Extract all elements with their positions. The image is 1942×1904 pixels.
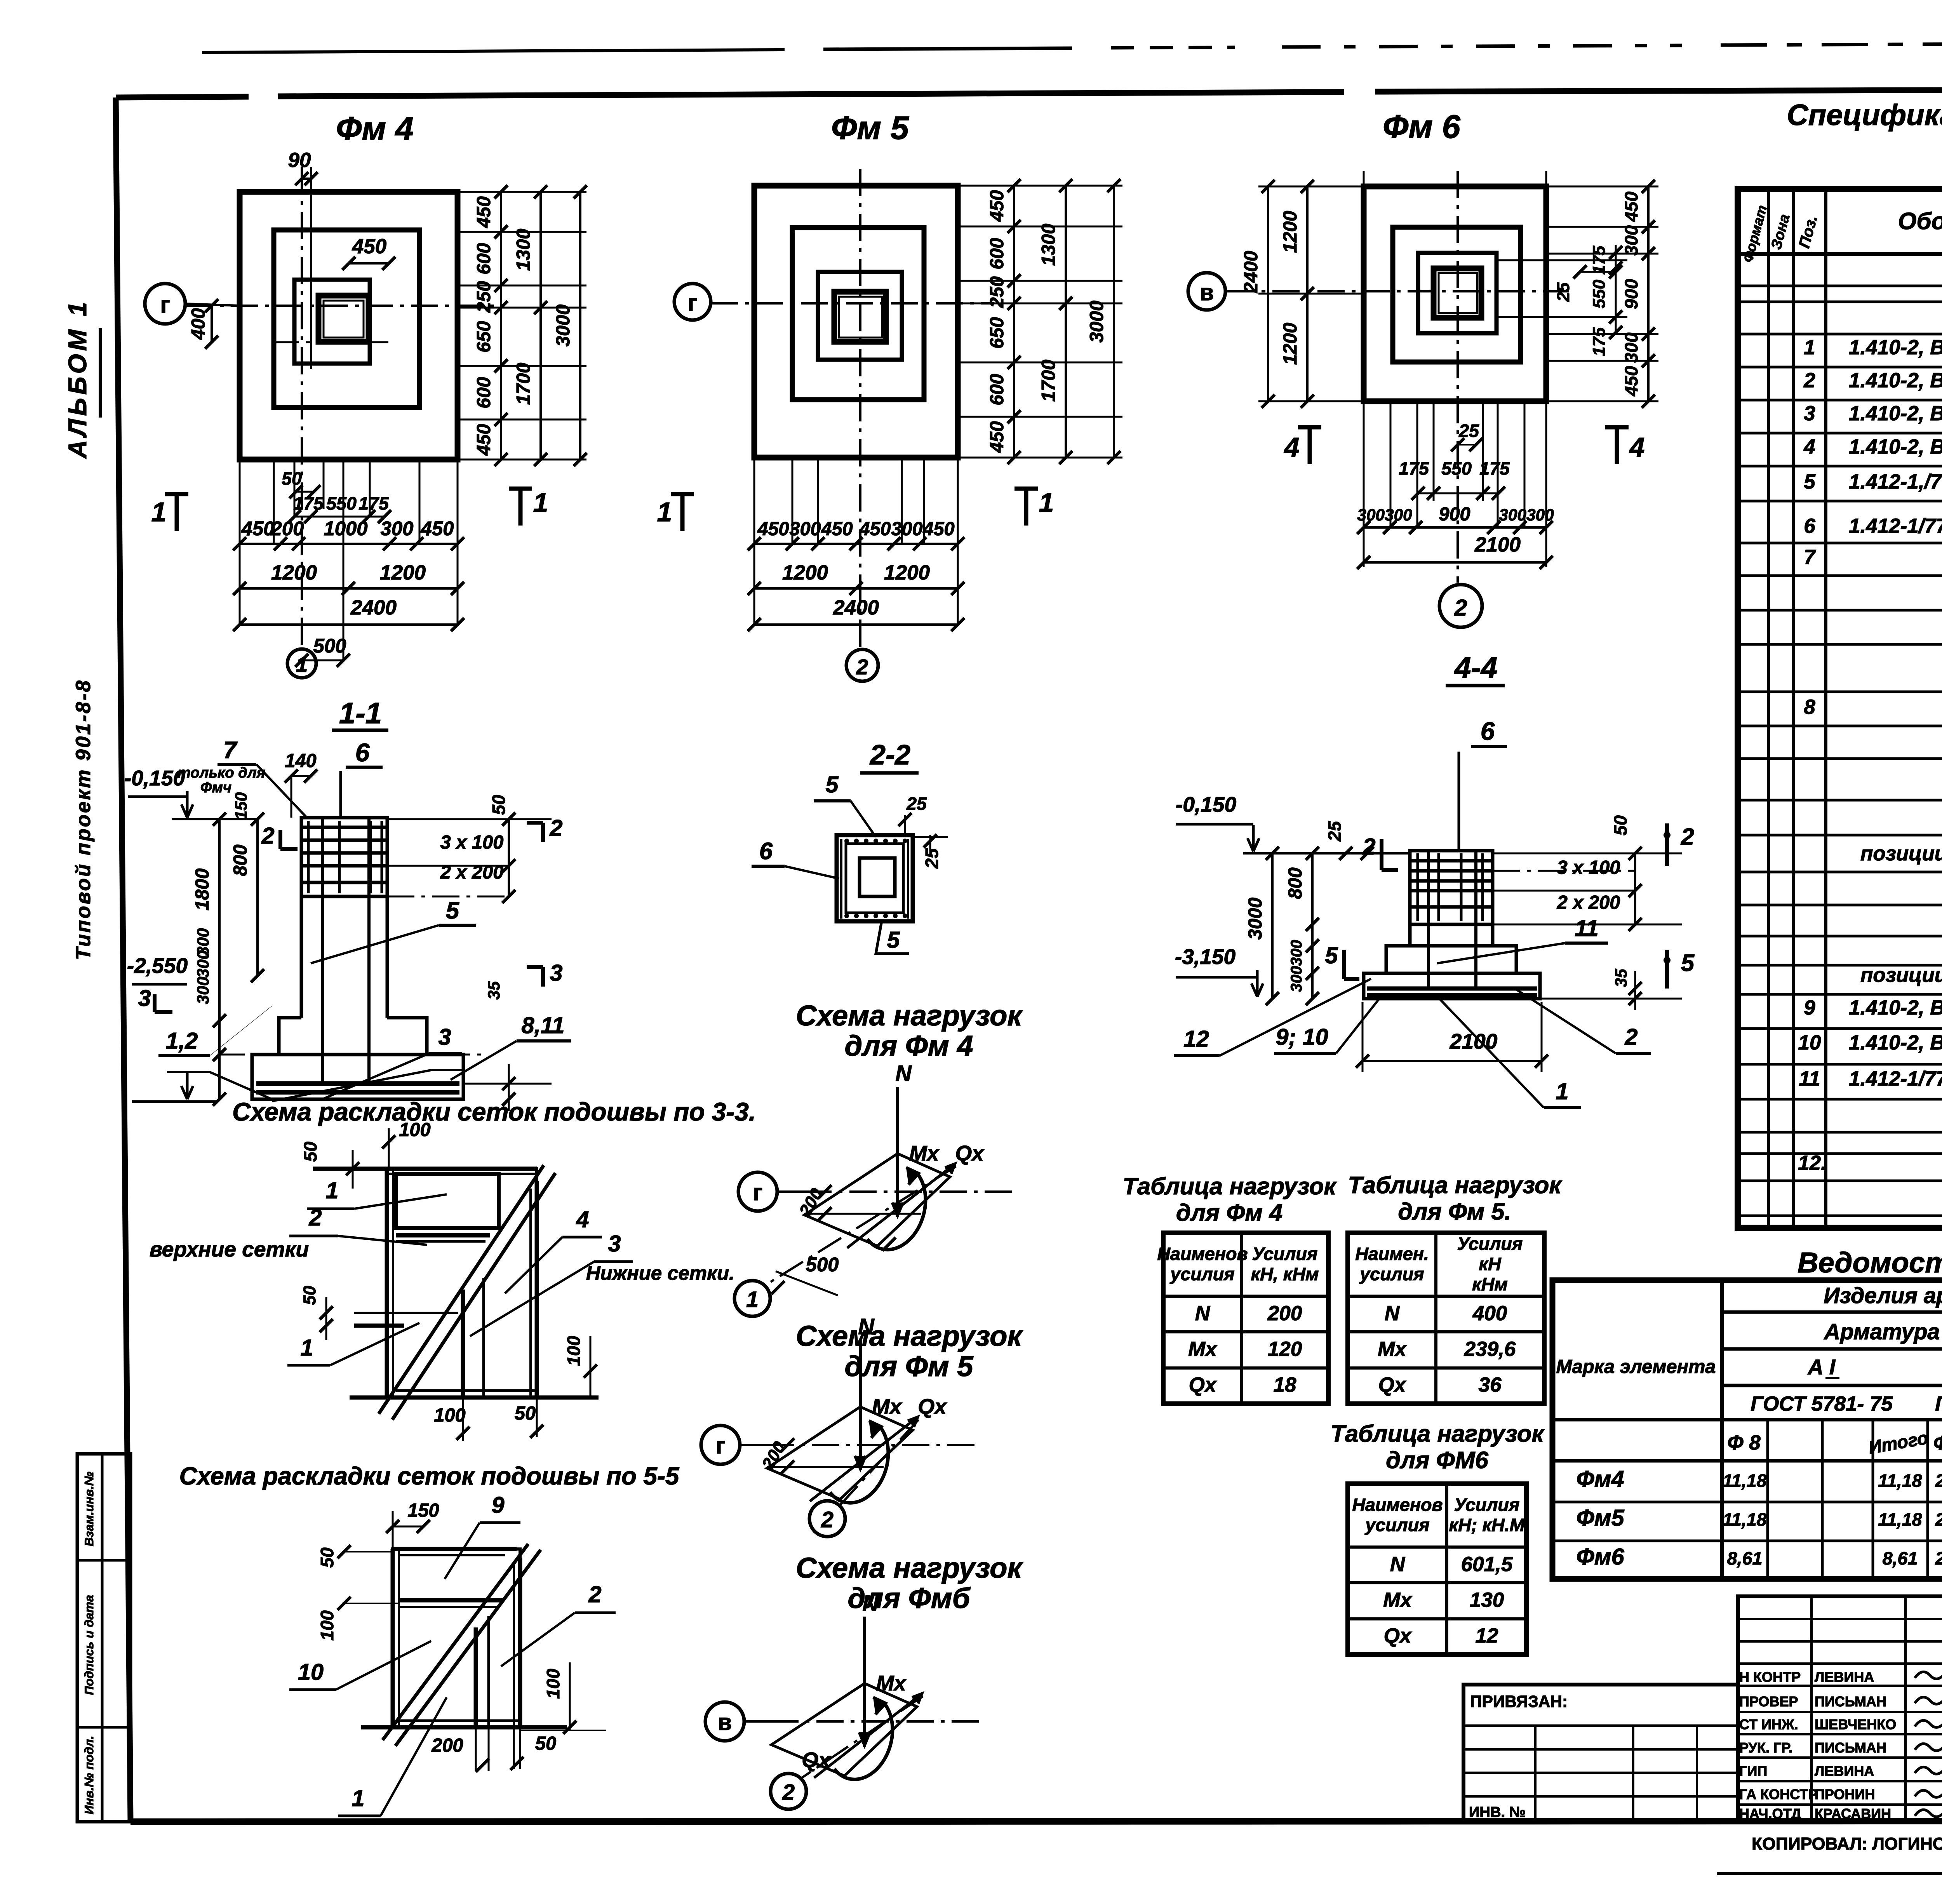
svg-text:1: 1 bbox=[1039, 487, 1054, 518]
svg-text:ЛЕВИНА: ЛЕВИНА bbox=[1815, 1763, 1874, 1779]
svg-text:Ф10: Ф10 bbox=[1933, 1432, 1942, 1454]
section 1-1 column rebar verticals bbox=[321, 818, 324, 1084]
svg-text:250: 250 bbox=[987, 276, 1008, 308]
mesh 3-3 mid horizontal lines bbox=[354, 1312, 458, 1314]
load table box bbox=[1348, 1484, 1526, 1655]
svg-text:4: 4 bbox=[1284, 432, 1300, 462]
load table header separator bbox=[1348, 1295, 1544, 1298]
svg-text:1: 1 bbox=[746, 1287, 759, 1312]
svg-text:3000: 3000 bbox=[553, 305, 574, 346]
section 4-4 left dim 3000 bbox=[1271, 853, 1274, 999]
svg-text:2: 2 bbox=[821, 1507, 834, 1532]
load scheme axis circle г bbox=[738, 1172, 777, 1211]
svg-text:1.410-2, Вып.1: 1.410-2, Вып.1 bbox=[1849, 402, 1942, 425]
load scheme N arrowhead bbox=[892, 1203, 903, 1216]
svg-text:175: 175 bbox=[358, 493, 389, 513]
svg-text:НАЧ.ОТД: НАЧ.ОТД bbox=[1739, 1806, 1801, 1822]
svg-text:4-4: 4-4 bbox=[1454, 651, 1497, 684]
mesh 5-5 left vertical double line bbox=[391, 1549, 395, 1727]
svg-text:г: г bbox=[753, 1179, 763, 1205]
svg-text:Усилия: Усилия bbox=[1252, 1244, 1318, 1264]
svg-text:2: 2 bbox=[1454, 595, 1467, 621]
svg-text:175: 175 bbox=[1399, 458, 1429, 479]
section 2-2 inner square (column core) bbox=[860, 858, 895, 896]
svg-text:2: 2 bbox=[308, 1204, 322, 1230]
svg-text:11: 11 bbox=[1799, 1067, 1820, 1090]
Фм6 right extension lines bbox=[1546, 186, 1658, 188]
steel table outer border bbox=[1552, 1280, 1942, 1579]
svg-text:1200: 1200 bbox=[271, 561, 317, 584]
spec table row lines bbox=[1738, 285, 1942, 287]
mesh 3-3 right vertical double line bbox=[535, 1181, 539, 1398]
svg-text:кН; кН.М: кН; кН.М bbox=[1449, 1515, 1525, 1535]
Фм6 dimension 2100 bbox=[1364, 561, 1546, 564]
svg-text:500: 500 bbox=[806, 1253, 839, 1276]
svg-text:ПРОВЕР: ПРОВЕР bbox=[1739, 1693, 1798, 1709]
svg-text:450: 450 bbox=[987, 421, 1008, 453]
Фм6 left dimension 2400 bbox=[1267, 186, 1269, 401]
left stamp divider 2 bbox=[77, 1726, 131, 1729]
svg-text:ГИП: ГИП bbox=[1739, 1763, 1767, 1779]
section 1-1 left dim 800 150 bbox=[256, 819, 259, 976]
svg-text:Qх: Qх bbox=[955, 1141, 985, 1165]
frame left border bbox=[116, 97, 131, 1822]
svg-text:50: 50 bbox=[300, 1142, 320, 1162]
Фм6 top ticks bbox=[1363, 171, 1365, 186]
svg-text:N: N bbox=[1195, 1302, 1211, 1325]
plan Фм4 offset line 90 bbox=[310, 167, 312, 369]
svg-text:600: 600 bbox=[473, 377, 494, 408]
plan Фм6 column outline bbox=[1434, 268, 1481, 318]
svg-text:Фмч: Фмч bbox=[200, 779, 231, 796]
svg-text:Спецификация монолитных фунд: Спецификация монолитных фундаментов bbox=[1787, 99, 1942, 132]
svg-text:130: 130 bbox=[1470, 1589, 1504, 1612]
svg-text:Ф 8: Ф 8 bbox=[1727, 1431, 1761, 1454]
svg-text:300: 300 bbox=[1621, 332, 1641, 363]
section 2-2 outer square bbox=[837, 835, 913, 921]
Фм4 right dimension 3000 bbox=[579, 192, 581, 459]
plan Фм5 column outline bbox=[834, 292, 886, 342]
load scheme N axis vertical bbox=[859, 1340, 862, 1470]
section 1-1 top level line bbox=[172, 818, 256, 820]
svg-text:в: в bbox=[1200, 279, 1214, 305]
section 1-1 right extension lines bbox=[387, 818, 552, 820]
svg-text:2: 2 bbox=[1803, 369, 1815, 392]
svg-text:2400: 2400 bbox=[1241, 251, 1262, 293]
svg-text:140: 140 bbox=[285, 750, 316, 771]
svg-text:300: 300 bbox=[381, 517, 414, 540]
svg-text:6: 6 bbox=[759, 838, 773, 865]
mesh 5-5 diagonal double line bbox=[383, 1544, 528, 1740]
svg-text:в: в bbox=[718, 1709, 732, 1735]
Фм6 right dimension 175 550 175 bbox=[1615, 245, 1617, 332]
svg-text:5: 5 bbox=[1681, 950, 1695, 976]
svg-text:N: N bbox=[1390, 1553, 1406, 1576]
svg-text:8,61: 8,61 bbox=[1883, 1548, 1918, 1568]
load table column divider bbox=[1434, 1233, 1437, 1404]
svg-text:1000: 1000 bbox=[324, 517, 367, 540]
svg-text:-0,150: -0,150 bbox=[1176, 792, 1237, 816]
Фм5 right dimension 1300 1700 bbox=[1065, 186, 1067, 458]
mesh 1 (upper mesh) block bbox=[396, 1174, 499, 1228]
svg-text:450: 450 bbox=[1621, 191, 1641, 222]
svg-text:1: 1 bbox=[151, 497, 167, 527]
section 1-1 column mesh block bbox=[301, 818, 387, 896]
svg-text:9: 9 bbox=[1804, 996, 1815, 1019]
svg-text:усилия: усилия bbox=[1359, 1264, 1424, 1284]
svg-text:1.410-2, Вып.1: 1.410-2, Вып.1 bbox=[1849, 336, 1942, 359]
section 2-2 rebar dots top bbox=[844, 839, 849, 843]
left stamp divider 1 bbox=[77, 1559, 131, 1562]
load table column divider bbox=[1445, 1484, 1448, 1655]
svg-text:7: 7 bbox=[1804, 546, 1816, 569]
svg-text:3000: 3000 bbox=[1245, 898, 1266, 940]
svg-text:36: 36 bbox=[1479, 1373, 1502, 1396]
svg-text:100: 100 bbox=[434, 1405, 465, 1426]
svg-text:100: 100 bbox=[399, 1119, 430, 1140]
svg-text:1300: 1300 bbox=[513, 229, 534, 271]
svg-text:120: 120 bbox=[1268, 1338, 1302, 1361]
svg-text:2400: 2400 bbox=[350, 596, 397, 619]
plan Фм5 vertical axis line bbox=[859, 169, 861, 648]
dimension 2400 (Фм5) bbox=[754, 623, 958, 626]
Привязан grid bbox=[1463, 1725, 1738, 1727]
svg-text:для Фм 4: для Фм 4 bbox=[1176, 1199, 1282, 1226]
svg-text:СТ ИНЖ.: СТ ИНЖ. bbox=[1739, 1716, 1798, 1732]
load scheme plate parallelogram bbox=[804, 1154, 950, 1246]
mesh 3-3 bottom double line bbox=[350, 1396, 599, 1400]
svg-text:только для: только для bbox=[177, 764, 265, 781]
svg-text:Таблица нагрузок: Таблица нагрузок bbox=[1122, 1173, 1337, 1200]
svg-text:150: 150 bbox=[407, 1500, 439, 1521]
svg-text:239,6: 239,6 bbox=[1464, 1338, 1516, 1361]
svg-text:Qх: Qх bbox=[1378, 1373, 1407, 1396]
svg-text:1200: 1200 bbox=[380, 561, 426, 584]
svg-text:2: 2 bbox=[588, 1581, 601, 1607]
svg-text:25: 25 bbox=[906, 794, 927, 814]
svg-text:6: 6 bbox=[1481, 717, 1495, 745]
svg-text:Мх: Мх bbox=[1383, 1589, 1413, 1612]
svg-text:1-1: 1-1 bbox=[339, 697, 382, 730]
section 4-4 base slab bbox=[1364, 973, 1540, 999]
svg-text:25: 25 bbox=[1458, 421, 1479, 441]
svg-text:11,18: 11,18 bbox=[1723, 1509, 1766, 1530]
svg-text:550: 550 bbox=[1590, 280, 1609, 309]
svg-text:1.410-2, Вып.1: 1.410-2, Вып.1 bbox=[1849, 996, 1942, 1019]
svg-text:2: 2 bbox=[1362, 834, 1375, 860]
svg-text:450: 450 bbox=[473, 424, 494, 456]
svg-text:Наимен.: Наимен. bbox=[1355, 1244, 1429, 1264]
svg-text:3000: 3000 bbox=[1086, 301, 1107, 343]
load scheme axis circle 2 bbox=[771, 1773, 806, 1809]
svg-text:900: 900 bbox=[1621, 279, 1641, 309]
svg-text:3: 3 bbox=[1804, 402, 1815, 425]
svg-text:для ФМ6: для ФМ6 bbox=[1386, 1447, 1488, 1474]
axis circle 2 (Фм5 bottom) bbox=[846, 649, 878, 681]
svg-text:ПРИВЯЗАН:: ПРИВЯЗАН: bbox=[1470, 1692, 1568, 1711]
svg-text:100: 100 bbox=[564, 1336, 584, 1366]
svg-text:3: 3 bbox=[438, 1024, 451, 1050]
axis circle г (Фм5) bbox=[674, 284, 711, 320]
svg-text:Мх: Мх bbox=[1188, 1338, 1218, 1361]
svg-text:Qх: Qх bbox=[1189, 1373, 1217, 1396]
svg-text:150: 150 bbox=[232, 792, 250, 820]
frame bottom border bbox=[131, 1821, 1942, 1822]
svg-text:5: 5 bbox=[825, 771, 839, 797]
steel table data row lines bbox=[1552, 1501, 1942, 1504]
section 4-4 base mesh lines bbox=[1367, 987, 1537, 991]
mesh 5-5 top double line bbox=[393, 1547, 517, 1551]
svg-text:600: 600 bbox=[987, 374, 1008, 405]
load scheme horizontal axis bbox=[744, 1720, 771, 1723]
svg-text:2 х 200: 2 х 200 bbox=[440, 862, 504, 883]
spec table header row bbox=[1738, 252, 1942, 256]
Фм6 left dimension 1200 1200 bbox=[1306, 186, 1309, 401]
load scheme Qx arrow bbox=[810, 1417, 918, 1501]
svg-text:ПИСЬМАН: ПИСЬМАН bbox=[1815, 1740, 1886, 1756]
svg-text:8,61: 8,61 bbox=[1727, 1548, 1763, 1568]
Фм5 right extension lines bbox=[958, 185, 1122, 187]
svg-text:200: 200 bbox=[271, 517, 304, 540]
svg-text:г: г bbox=[688, 290, 698, 316]
steel table vertical column lines (body) bbox=[1721, 1420, 1723, 1579]
svg-text:1.410-2, Вып.1: 1.410-2, Вып.1 bbox=[1849, 1031, 1942, 1054]
Фм6 dimension 175 550 175 (below) bbox=[1418, 493, 1498, 494]
svg-text:Схема нагрузок: Схема нагрузок bbox=[796, 1320, 1023, 1352]
svg-text:11,18: 11,18 bbox=[1878, 1509, 1922, 1530]
svg-text:18: 18 bbox=[1274, 1373, 1296, 1396]
load scheme plate parallelogram bbox=[767, 1407, 913, 1499]
load scheme axis circle г bbox=[701, 1425, 740, 1464]
load scheme Mx moment arc bbox=[834, 1704, 893, 1779]
sheet outer trim dash-dot line (top) bbox=[202, 50, 785, 52]
svg-text:1800: 1800 bbox=[192, 868, 213, 910]
dimension 175 550 175 (below plan) bbox=[294, 516, 385, 518]
svg-text:1.412-1/77 Вып.3: 1.412-1/77 Вып.3 bbox=[1849, 515, 1942, 538]
dimension 400 (left) bbox=[211, 306, 213, 342]
svg-text:50: 50 bbox=[515, 1403, 536, 1424]
svg-text:450: 450 bbox=[241, 517, 275, 540]
svg-text:Наименов: Наименов bbox=[1157, 1244, 1248, 1264]
svg-text:Схема раскладки сеток подошвы: Схема раскладки сеток подошвы по 5-5 bbox=[179, 1462, 680, 1490]
svg-text:50: 50 bbox=[489, 795, 509, 815]
svg-text:1.412-1,/77, Вып.3: 1.412-1,/77, Вып.3 bbox=[1849, 470, 1942, 493]
Фм4 right dimension 1300 1700 bbox=[539, 192, 542, 459]
svg-text:2100: 2100 bbox=[1474, 533, 1521, 556]
svg-text:300: 300 bbox=[891, 519, 922, 540]
section 4-4 top level line bbox=[1243, 852, 1410, 855]
section 4-4 rebar verticals bbox=[1427, 851, 1430, 990]
svg-text:300: 300 bbox=[1621, 225, 1641, 256]
load scheme inclined axis with circle bbox=[839, 1420, 919, 1506]
svg-text:верхние сетки: верхние сетки bbox=[150, 1237, 309, 1261]
plan Фм5 middle step contour bbox=[792, 228, 924, 400]
svg-text:6: 6 bbox=[1804, 515, 1815, 538]
svg-text:5: 5 bbox=[446, 897, 459, 924]
svg-text:2: 2 bbox=[782, 1780, 795, 1805]
svg-text:для Фм 5: для Фм 5 bbox=[845, 1350, 974, 1382]
load scheme inclined axis with circle bbox=[800, 1696, 923, 1779]
svg-text:Мх: Мх bbox=[876, 1671, 907, 1695]
svg-text:175: 175 bbox=[1479, 458, 1510, 479]
svg-text:250: 250 bbox=[473, 281, 494, 313]
mesh 3-3 outer rectangle bbox=[387, 1169, 537, 1398]
svg-text:175: 175 bbox=[293, 493, 324, 513]
load scheme N axis vertical bbox=[896, 1087, 899, 1217]
load scheme dim 200 bbox=[767, 1466, 884, 1468]
Фм5 right dimension 3000 bbox=[1113, 186, 1115, 458]
svg-text:г: г bbox=[160, 291, 170, 318]
svg-text:800: 800 bbox=[1285, 867, 1306, 899]
load scheme N axis vertical bbox=[863, 1617, 866, 1747]
steel table header: Арматура класса (left) bbox=[1722, 1347, 1942, 1351]
svg-text:35: 35 bbox=[1612, 968, 1630, 987]
section mark 1 (left of Фм5) bbox=[680, 494, 685, 531]
svg-text:50: 50 bbox=[300, 1286, 319, 1305]
svg-text:11,18: 11,18 bbox=[1878, 1471, 1922, 1491]
svg-text:Мх: Мх bbox=[909, 1141, 940, 1165]
svg-text:601,5: 601,5 bbox=[1461, 1553, 1513, 1576]
svg-text:-2,550: -2,550 bbox=[127, 954, 188, 978]
svg-text:усилия: усилия bbox=[1364, 1515, 1429, 1535]
svg-text:2 х 200: 2 х 200 bbox=[1557, 892, 1620, 913]
svg-text:450: 450 bbox=[1621, 366, 1641, 397]
mesh 5-5 bottom double line bbox=[361, 1725, 567, 1730]
plan Фм4 horizontal axis line г bbox=[186, 305, 501, 307]
signature table column lines bbox=[1810, 1596, 1813, 1822]
svg-text:Фм 4: Фм 4 bbox=[336, 110, 414, 147]
svg-text:25,2: 25,2 bbox=[1935, 1471, 1942, 1491]
axis circle 2 (Фм6 bottom) bbox=[1439, 585, 1482, 627]
spec table outer border bbox=[1738, 189, 1942, 1228]
svg-text:35: 35 bbox=[485, 981, 503, 1000]
dimension 2400 (Фм4) bbox=[240, 623, 458, 626]
svg-text:КОПИРОВАЛ: ЛОГИНОВА: КОПИРОВАЛ: ЛОГИНОВА bbox=[1752, 1834, 1942, 1854]
load table box bbox=[1348, 1233, 1544, 1404]
svg-text:2-2: 2-2 bbox=[869, 740, 910, 771]
svg-text:1: 1 bbox=[300, 1335, 313, 1361]
mesh 3-3 diagonal double line bbox=[379, 1165, 544, 1414]
svg-text:2: 2 bbox=[1681, 823, 1694, 850]
svg-text:800: 800 bbox=[230, 844, 251, 876]
svg-text:25,2: 25,2 bbox=[1935, 1509, 1942, 1530]
svg-text:1: 1 bbox=[533, 487, 548, 518]
plan Фм4 lower horizontal dash line 400 bbox=[272, 341, 388, 343]
svg-text:кНм: кНм bbox=[1472, 1274, 1508, 1294]
svg-text:1: 1 bbox=[325, 1177, 338, 1203]
signature table box bbox=[1738, 1596, 1942, 1822]
svg-text:1200: 1200 bbox=[884, 561, 930, 584]
dimension chain 450 300 450 450 300 450 bbox=[754, 543, 958, 545]
plan Фм4 small step contour bbox=[294, 280, 370, 364]
svg-text:450: 450 bbox=[987, 190, 1008, 222]
steel table diameter row bbox=[1552, 1418, 1942, 1422]
load scheme plate parallelogram bbox=[771, 1683, 917, 1776]
svg-text:кН, кНм: кН, кНм bbox=[1251, 1264, 1319, 1284]
plan Фм6 small step contour bbox=[1418, 253, 1497, 333]
svg-text:для Фмб: для Фмб bbox=[847, 1582, 971, 1614]
svg-text:Марка элемента: Марка элемента bbox=[1556, 1356, 1716, 1377]
svg-text:Мх: Мх bbox=[872, 1394, 903, 1418]
Фм5 right dimension chain 450 600 250 650 600 450 bbox=[1013, 186, 1015, 458]
svg-text:1.410-2, Вып.1: 1.410-2, Вып.1 bbox=[1849, 369, 1942, 392]
svg-text:3: 3 bbox=[608, 1230, 621, 1257]
load scheme N arrowhead bbox=[855, 1456, 866, 1469]
mesh 2 thick lines bbox=[396, 1233, 490, 1237]
dimension 1200 1200 (Фм5) bbox=[754, 587, 958, 590]
svg-text:10: 10 bbox=[298, 1659, 324, 1685]
svg-text:Инв.№ подл.: Инв.№ подл. bbox=[82, 1736, 96, 1815]
plan Фм4 column inner line bbox=[324, 301, 364, 338]
steel table header: ГОСТ 5781-75 x2 bbox=[1722, 1418, 1942, 1422]
svg-text:Схема нагрузок: Схема нагрузок bbox=[796, 999, 1023, 1032]
svg-text:100: 100 bbox=[317, 1610, 337, 1641]
load table row lines bbox=[1163, 1330, 1328, 1333]
svg-text:50: 50 bbox=[1610, 815, 1631, 835]
svg-text:Qх: Qх bbox=[918, 1394, 947, 1418]
load table column divider bbox=[1240, 1233, 1243, 1404]
load scheme Mx moment arc bbox=[867, 1174, 926, 1250]
svg-text:500: 500 bbox=[313, 635, 346, 657]
svg-text:1: 1 bbox=[657, 497, 672, 527]
svg-text:1700: 1700 bbox=[1038, 360, 1059, 402]
svg-text:Наименов: Наименов bbox=[1352, 1495, 1443, 1515]
plan Фм4 vertical axis line 1 bbox=[301, 167, 303, 648]
Привязан block box bbox=[1463, 1685, 1738, 1822]
Фм6 left extension lines bbox=[1258, 186, 1364, 188]
svg-text:Мх: Мх bbox=[1378, 1338, 1407, 1361]
svg-text:Фм 5: Фм 5 bbox=[831, 109, 909, 146]
svg-text:7: 7 bbox=[223, 737, 238, 764]
mesh 5-5 inner vertical (mesh 2) bbox=[474, 1627, 478, 1727]
svg-text:200: 200 bbox=[431, 1735, 463, 1756]
svg-text:175: 175 bbox=[1590, 327, 1609, 357]
Фм5 verticals extended below bbox=[753, 458, 755, 625]
svg-text:РУК. ГР.: РУК. ГР. bbox=[1739, 1740, 1792, 1756]
svg-text:А I: А I bbox=[1807, 1355, 1836, 1379]
section 4-4 column body bbox=[1408, 924, 1412, 946]
mesh 3-3 left vertical double line bbox=[385, 1169, 389, 1398]
axis circle 1 (Фм4 bottom) bbox=[287, 649, 316, 678]
svg-text:1: 1 bbox=[1804, 336, 1815, 359]
svg-text:5: 5 bbox=[1804, 470, 1816, 493]
plan Фм5 horizontal axis line bbox=[711, 302, 994, 305]
section 1-1 base slab bbox=[252, 1055, 463, 1099]
plan Фм4 column outline bbox=[318, 296, 369, 342]
svg-text:25: 25 bbox=[922, 848, 942, 869]
svg-text:Qх: Qх bbox=[802, 1748, 831, 1772]
svg-text:кН: кН bbox=[1479, 1254, 1502, 1274]
svg-text:Таблица нагрузок: Таблица нагрузок bbox=[1348, 1172, 1562, 1199]
svg-text:Усилия: Усилия bbox=[1457, 1234, 1523, 1254]
plan Фм6 vertical axis line bbox=[1456, 171, 1459, 583]
svg-text:12.: 12. bbox=[1798, 1152, 1827, 1175]
svg-text:Таблица нагрузок: Таблица нагрузок bbox=[1330, 1420, 1545, 1447]
section 1-1 base mesh lines bbox=[256, 1081, 459, 1086]
load table row lines bbox=[1348, 1581, 1526, 1584]
plan Фм6 column inner line bbox=[1439, 273, 1477, 313]
spec table column lines bbox=[1767, 189, 1770, 1228]
axis circle г (Фм4) bbox=[145, 284, 185, 324]
svg-text:600: 600 bbox=[473, 243, 494, 274]
svg-text:3 х 100: 3 х 100 bbox=[440, 832, 504, 853]
svg-text:3: 3 bbox=[550, 960, 562, 986]
axis circle в (Фм6) bbox=[1188, 273, 1225, 310]
section 4-4 left dim 800 bbox=[1311, 853, 1314, 924]
svg-text:2: 2 bbox=[856, 655, 868, 679]
Фм6 verticals extended below bbox=[1363, 401, 1365, 567]
load scheme inclined axis with circle bbox=[764, 1166, 956, 1286]
